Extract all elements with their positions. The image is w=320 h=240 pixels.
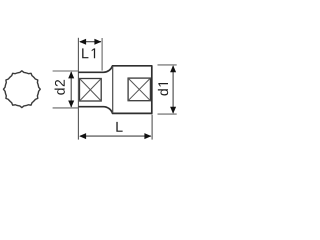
arrowhead right: [144, 133, 151, 139]
label L: [116, 122, 122, 132]
extension line left: L1 top, body left face, L bottom: [77, 38, 79, 140]
square cross-section (head part): [128, 78, 150, 101]
step face line: [112, 66, 114, 113]
extension line right of L: [151, 115, 153, 140]
arrowhead left: [79, 39, 86, 45]
arrowhead left: [79, 133, 86, 139]
extension line right of L1: [101, 38, 103, 71]
arrowhead up: [68, 71, 74, 78]
label d1: [158, 83, 168, 96]
socket 12-point opening profile: [3, 71, 40, 108]
label L 1: [82, 48, 95, 58]
arrowhead down: [68, 101, 74, 108]
arrowhead up: [170, 65, 176, 72]
dimension d1 (right): [158, 65, 177, 114]
dimension L1 (top): [79, 39, 101, 59]
arrowhead down: [170, 107, 176, 114]
body outline of socket side view: [78, 66, 151, 114]
square drive cross-section (narrow part): [80, 79, 102, 102]
label d2: [55, 80, 65, 95]
dimension d2 (left): [53, 71, 79, 108]
dimension L (bottom): [79, 122, 151, 139]
arrowhead right: [94, 39, 101, 45]
